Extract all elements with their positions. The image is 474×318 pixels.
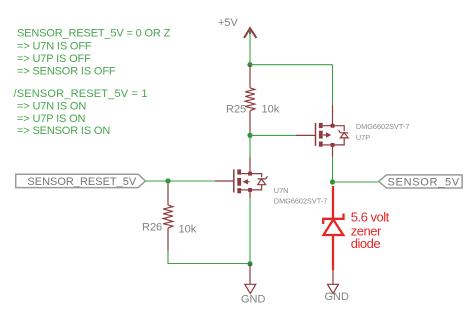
source connect U7N [241,189,250,191]
node B junction [247,133,252,138]
drain connect U7N [241,173,250,175]
supply +5V symbol [244,28,256,38]
wire U7N source to ground node [249,198,251,264]
node A junction [247,62,252,67]
svg-text:diode: diode [351,236,381,251]
gate bar U7N [233,169,235,192]
svg-text:R25: R25 [226,104,246,116]
svg-text:=> SENSOR IS OFF: => SENSOR IS OFF [17,66,116,78]
zener diode (highlighted red) [323,186,343,270]
note text block 1 [17,27,171,77]
source connect U7P [323,144,333,146]
channel bars U7N [237,169,241,193]
svg-text:+5V: +5V [218,17,239,29]
wire node B down to U7N drain [249,135,251,157]
wire flag to node C [145,180,168,182]
drain connect U7P [323,125,333,127]
svg-text:R26: R26 [142,222,162,234]
svg-text:U7P: U7P [356,133,370,142]
svg-text:=> U7N IS ON: => U7N IS ON [17,101,86,113]
svg-text:5.6 volt: 5.6 volt [351,209,390,224]
svg-text:/SENSOR_RESET_5V = 1: /SENSOR_RESET_5V = 1 [14,88,148,100]
substrate arrow U7P (points right) [323,134,327,136]
wire +5V stub to node A [249,30,251,65]
wire U7P drain to sensor node [332,157,334,183]
node D ground junction [247,261,252,266]
wire node C to U7N gate [168,180,215,182]
node E sensor junction [330,179,335,184]
svg-text:GND: GND [241,293,266,305]
wire node A to U7P source column [250,64,333,66]
pin pads U7N [248,172,252,192]
wire sensor node to flag [333,181,379,183]
svg-text:SENSOR_RESET_5V: SENSOR_RESET_5V [27,176,136,188]
gate bar U7P [315,123,317,146]
pin drain lead up U7N [249,157,251,174]
pin drain lead down U7P [332,145,334,157]
resistor R25 [245,65,255,136]
svg-text:SENSOR_RESET_5V = 0 OR Z: SENSOR_RESET_5V = 0 OR Z [17,27,171,39]
net flag SENSOR_RESET_5V [16,174,146,188]
svg-text:GND: GND [325,291,350,303]
transistor N-channel mosfet U7N [215,157,268,198]
zener cathode bar [323,214,343,225]
svg-text:DMG6602SVT-7: DMG6602SVT-7 [274,197,328,206]
note text block 2 [14,88,148,137]
svg-text:SENSOR_5V: SENSOR_5V [388,176,460,188]
anode lead [332,235,334,270]
svg-text:=> U7P IS OFF: => U7P IS OFF [17,53,91,65]
node C junction [165,178,170,183]
pin gate lead U7P [296,134,316,136]
wire node C down to R26 [167,181,169,187]
resistor R26 [163,184,173,251]
cathode lead [332,186,334,219]
svg-text:=> U7N IS OFF: => U7N IS OFF [17,41,92,53]
net flag SENSOR_5V [379,175,462,189]
svg-text:U7N: U7N [274,186,289,195]
pin gate lead U7N [215,180,234,182]
pin pads U7P [331,124,335,147]
op P-channel mosfet U7P [296,105,348,157]
svg-text:=> U7P IS ON: => U7P IS ON [17,113,86,125]
svg-text:10k: 10k [179,224,197,236]
svg-text:10k: 10k [262,104,280,116]
body diode U7N [250,174,262,178]
ground symbol right [328,270,339,293]
svg-text:=> SENSOR IS ON: => SENSOR IS ON [17,125,110,137]
ground symbol left [245,264,256,294]
wire U7P source column down [332,65,334,105]
svg-text:DMG6602SVT-7: DMG6602SVT-7 [356,122,410,131]
wire node B to U7P gate [250,134,296,136]
pin source lead down U7N [249,190,251,198]
channel bars U7P [319,123,323,147]
body diode U7P [333,126,345,132]
zener triangle [324,220,344,236]
annotation 5.6 volt zener diode [351,209,390,251]
substrate arrow U7N (points left) [245,181,250,183]
wire R26 bottom to ground node [168,251,250,264]
pin source lead up U7P [332,105,334,126]
